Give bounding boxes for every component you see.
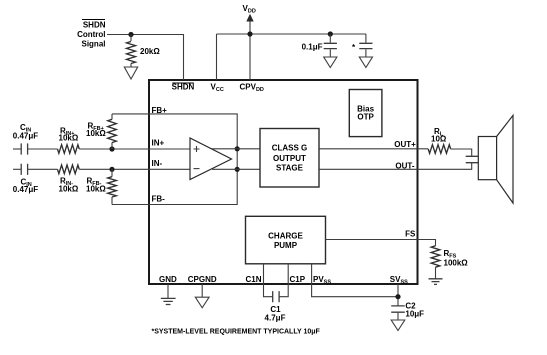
svg-text:GND: GND: [159, 275, 177, 284]
svg-text:FB+: FB+: [152, 106, 168, 115]
svg-text:IN-: IN-: [152, 159, 163, 168]
svg-text:FS: FS: [405, 229, 416, 238]
svg-text:OUT+: OUT+: [394, 140, 416, 149]
svg-text:FB-: FB-: [152, 195, 166, 204]
svg-text:0.1μF: 0.1μF: [302, 43, 323, 52]
svg-text:CHARGE: CHARGE: [268, 232, 303, 241]
svg-text:OUTPUT: OUTPUT: [273, 154, 306, 163]
svg-text:10kΩ: 10kΩ: [86, 184, 106, 193]
svg-text:10kΩ: 10kΩ: [59, 184, 79, 193]
svg-text:C1P: C1P: [290, 275, 306, 284]
svg-text:STAGE: STAGE: [276, 164, 304, 173]
svg-text:C1N: C1N: [245, 275, 261, 284]
svg-text:OTP: OTP: [357, 112, 374, 121]
svg-text:Signal: Signal: [81, 40, 105, 49]
svg-text:PUMP: PUMP: [274, 241, 298, 250]
svg-text:Control: Control: [77, 30, 105, 39]
svg-text:0.47μF: 0.47μF: [13, 132, 38, 141]
svg-text:CLASS G: CLASS G: [272, 144, 308, 153]
svg-text:100kΩ: 100kΩ: [444, 259, 469, 268]
svg-text:4.7μF: 4.7μF: [265, 313, 286, 322]
svg-text:10Ω: 10Ω: [431, 135, 447, 144]
svg-text:SHDN: SHDN: [172, 82, 195, 91]
svg-text:SHDN: SHDN: [83, 21, 106, 30]
svg-text:0.47μF: 0.47μF: [13, 185, 38, 194]
svg-text:OUT-: OUT-: [395, 162, 414, 171]
svg-text:CPGND: CPGND: [188, 275, 217, 284]
svg-text:10μF: 10μF: [405, 310, 424, 319]
svg-text:IN+: IN+: [152, 139, 165, 148]
svg-text:20kΩ: 20kΩ: [140, 47, 160, 56]
svg-text:10kΩ: 10kΩ: [86, 129, 106, 138]
svg-text:10kΩ: 10kΩ: [59, 134, 79, 143]
svg-text:*SYSTEM-LEVEL REQUIREMENT TYPI: *SYSTEM-LEVEL REQUIREMENT TYPICALLY 10μF: [152, 328, 321, 335]
